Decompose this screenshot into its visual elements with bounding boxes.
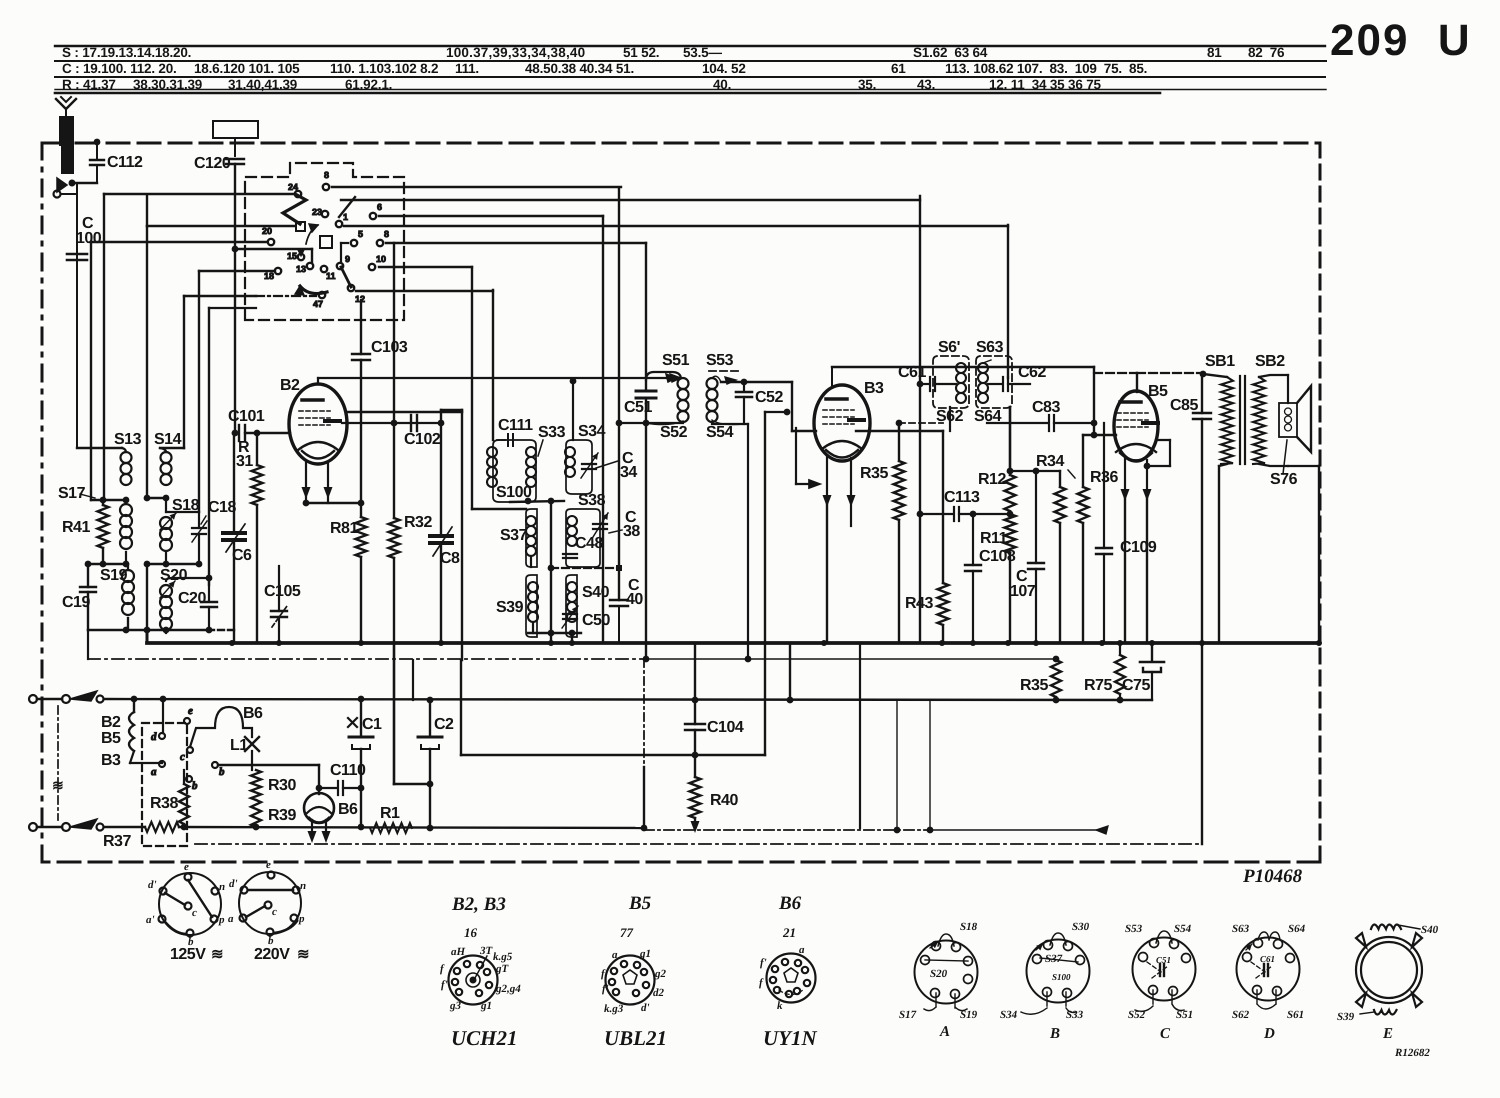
label R11	[980, 530, 1008, 547]
wire S14 top	[160, 296, 184, 448]
svg-text:35.: 35.	[858, 77, 876, 92]
svg-text:a: a	[228, 913, 234, 925]
IF transformer S53 coil	[707, 376, 745, 424]
svg-text:R41: R41	[62, 519, 90, 536]
resistor R81	[356, 503, 367, 643]
svg-text:C102: C102	[404, 431, 441, 448]
svg-text:UY1N: UY1N	[763, 1026, 817, 1050]
svg-text:SB2: SB2	[1255, 353, 1285, 370]
capacitor C100	[67, 254, 87, 260]
svg-text:S19: S19	[100, 567, 128, 584]
svg-text:220V: 220V	[254, 946, 290, 963]
resistor R37	[145, 822, 179, 832]
tube socket UY1N	[767, 954, 816, 1003]
svg-text:61.92.1.: 61.92.1.	[345, 77, 392, 92]
label B2	[280, 377, 300, 394]
coil S63	[978, 360, 991, 403]
capacitor C85	[1193, 374, 1211, 643]
svg-text:S33: S33	[1066, 1009, 1084, 1021]
svg-text:R35: R35	[860, 465, 888, 482]
label S100	[496, 484, 532, 501]
coil S18	[160, 513, 176, 564]
svg-text:S20: S20	[930, 968, 948, 980]
svg-text:S19: S19	[960, 1009, 978, 1021]
coil S17 winding	[120, 500, 132, 564]
svg-text:110. 1.103.102 8.2: 110. 1.103.102 8.2	[330, 61, 438, 76]
capacitor C113	[920, 507, 1010, 521]
node coil bottoms	[85, 561, 130, 568]
wire S64 down	[1007, 407, 1014, 474]
label R40	[710, 792, 738, 809]
label B6 heading	[778, 893, 802, 940]
capacitor C52	[712, 382, 752, 424]
svg-text:209 U: 209 U	[1330, 16, 1472, 65]
svg-text:d: d	[151, 731, 157, 743]
svg-text:c: c	[272, 906, 277, 918]
svg-text:≋: ≋	[297, 946, 309, 963]
labels UBL21 socket	[601, 948, 667, 1015]
label B6 lamp	[243, 705, 263, 722]
trimmer C34	[581, 453, 598, 478]
capacitor C112	[90, 139, 104, 183]
wire B5 screen box	[1147, 440, 1170, 466]
resistor R40	[690, 755, 701, 833]
svg-text:C61: C61	[898, 364, 926, 381]
svg-text:C83: C83	[1032, 399, 1060, 416]
coil S33	[526, 447, 536, 487]
label C18	[201, 499, 236, 524]
svg-text:d': d'	[641, 1002, 650, 1014]
svg-text:S63: S63	[1232, 923, 1250, 935]
svg-text:B5: B5	[628, 893, 652, 914]
svg-text:S40: S40	[582, 584, 610, 601]
wire to S100 top	[492, 290, 494, 440]
svg-text:k: k	[777, 1000, 783, 1012]
trimmer C18	[192, 512, 207, 564]
label S52	[660, 424, 688, 441]
svg-text:8: 8	[324, 170, 329, 180]
label S81	[1205, 353, 1235, 370]
resistor R11	[1005, 514, 1016, 643]
tube socket UCH21	[449, 956, 498, 1005]
svg-text:S6': S6'	[938, 339, 960, 356]
capacitor C101	[232, 425, 290, 441]
label R81	[330, 520, 358, 537]
title 209 U	[1330, 16, 1472, 65]
node S100 bottom	[510, 498, 564, 505]
svg-text:C62: C62	[1018, 364, 1046, 381]
svg-text:C85: C85	[1170, 397, 1198, 414]
coil S34	[565, 447, 575, 477]
label C104	[707, 719, 744, 736]
capacitor C107	[1028, 468, 1044, 643]
label S38	[578, 492, 606, 509]
capacitor C110	[316, 781, 365, 795]
wire screen feed	[394, 643, 430, 784]
label S18	[172, 497, 200, 514]
antenna terminal	[54, 191, 78, 198]
band switch contacts	[262, 170, 389, 309]
bottom dashdot rail	[644, 826, 1108, 834]
svg-text:77: 77	[620, 925, 634, 940]
capacitor C51	[636, 243, 656, 662]
svg-text:S52: S52	[660, 424, 688, 441]
svg-text:B2: B2	[101, 714, 121, 731]
svg-text:S38: S38	[578, 492, 606, 509]
svg-text:f': f'	[602, 983, 609, 995]
label C40	[626, 577, 643, 608]
parts table row S	[62, 45, 1285, 60]
svg-text:111.: 111.	[455, 61, 479, 76]
wire S53 top to B3 grid	[709, 371, 816, 662]
svg-text:C: C	[1160, 1026, 1171, 1042]
svg-text:S53: S53	[706, 352, 734, 369]
capacitor C83	[987, 415, 1097, 431]
trimmer C38	[593, 513, 608, 537]
svg-text:E: E	[1382, 1026, 1393, 1042]
lamp circuit B6	[190, 707, 252, 747]
svg-text:g2,g4: g2,g4	[495, 983, 521, 995]
node S39 bottom	[528, 630, 581, 643]
schematic dashed border	[42, 143, 1320, 862]
label R35b	[1020, 677, 1048, 694]
label C51	[624, 399, 652, 416]
svg-text:UCH21: UCH21	[451, 1026, 518, 1050]
svg-text:B3: B3	[864, 380, 884, 397]
heater chain	[129, 699, 162, 763]
ground bus	[147, 630, 1322, 646]
capacitor C105	[271, 566, 287, 643]
svg-text:6: 6	[377, 202, 382, 212]
svg-text:82 76: 82 76	[1248, 45, 1285, 60]
wire x930	[927, 700, 934, 833]
wire B2 screen pin	[303, 464, 365, 506]
wire switch 1 right	[344, 225, 1008, 227]
svg-text:C101: C101	[228, 408, 265, 425]
svg-text:S37: S37	[500, 527, 528, 544]
label R31	[236, 439, 253, 470]
label C103	[371, 339, 408, 356]
capacitor C111	[497, 434, 513, 446]
svg-text:g3: g3	[449, 1000, 462, 1012]
svg-text:24: 24	[288, 182, 298, 192]
svg-text:C105: C105	[264, 583, 301, 600]
svg-text:38.30.31.39: 38.30.31.39	[133, 77, 202, 92]
capacitor C62	[988, 225, 1030, 391]
svg-text:R75: R75	[1084, 677, 1112, 694]
svg-text:c: c	[192, 907, 197, 919]
IF can S34 outline	[566, 440, 592, 494]
label S64	[974, 408, 1002, 425]
svg-text:R32: R32	[404, 514, 432, 531]
parts table rule top	[55, 45, 1325, 47]
band switch arrow	[306, 224, 318, 244]
svg-text:C51: C51	[624, 399, 652, 416]
label C105	[264, 583, 301, 600]
capacitor C19	[80, 564, 96, 630]
svg-text:d2: d2	[653, 987, 665, 999]
svg-text:R37: R37	[103, 833, 131, 850]
label C48	[575, 535, 603, 552]
svg-text:f': f'	[760, 957, 767, 969]
label S54	[706, 424, 734, 441]
svg-text:47: 47	[313, 299, 323, 309]
coil S61	[950, 363, 966, 431]
label R37	[103, 833, 131, 850]
svg-text:R35: R35	[1020, 677, 1048, 694]
wire S13 top	[77, 447, 122, 449]
svg-text:107: 107	[1010, 583, 1036, 600]
label S39	[496, 599, 524, 616]
label S14	[154, 431, 182, 448]
svg-text:R : 41.37: R : 41.37	[62, 77, 116, 92]
svg-text:C51: C51	[1156, 955, 1171, 965]
label C62	[1018, 364, 1046, 381]
wire B3 pin2	[847, 458, 856, 526]
selector contacts	[151, 705, 225, 792]
label C100	[76, 215, 102, 247]
svg-text:18: 18	[264, 271, 274, 281]
svg-text:f: f	[759, 977, 764, 989]
label B5 heading	[620, 893, 652, 940]
node S18 bottom	[144, 561, 203, 630]
svg-text:R11: R11	[980, 530, 1008, 547]
label S33	[538, 424, 566, 456]
svg-text:a: a	[151, 766, 157, 778]
capacitor C2	[418, 700, 442, 828]
parts table rule 2	[55, 60, 1326, 62]
svg-text:g1: g1	[639, 948, 651, 960]
capacitor C40	[610, 188, 628, 643]
band switch wiper 2	[295, 286, 327, 295]
svg-text:b: b	[192, 780, 198, 792]
trimmer C50	[562, 606, 578, 628]
svg-text:C52: C52	[755, 389, 783, 406]
svg-text:40: 40	[626, 591, 643, 608]
svg-text:S1.62 63 64: S1.62 63 64	[913, 45, 988, 60]
svg-text:53.5—: 53.5—	[683, 45, 722, 60]
mains terminal top	[29, 695, 70, 703]
svg-text:16: 16	[464, 925, 478, 940]
svg-text:n: n	[219, 881, 225, 893]
wire switch 20 left	[91, 242, 267, 500]
coil can A	[915, 934, 978, 1011]
svg-text:C111: C111	[498, 417, 533, 434]
svg-text:B5: B5	[1148, 383, 1168, 400]
wire x644 drop	[643, 659, 645, 828]
wire speaker return	[1288, 466, 1319, 643]
resistor R43	[938, 431, 949, 643]
wire S18 top	[166, 498, 199, 512]
wire switch 18 left	[199, 271, 275, 512]
svg-text:S64: S64	[1288, 923, 1306, 935]
svg-text:S54: S54	[1174, 923, 1192, 935]
node IF2 mid dashdot	[548, 565, 622, 572]
svg-text:aH: aH	[451, 946, 466, 958]
label S37	[500, 527, 528, 544]
band switch center	[320, 236, 332, 248]
svg-text:13: 13	[296, 264, 306, 274]
svg-text:R30: R30	[268, 777, 296, 794]
label C38	[609, 509, 640, 540]
svg-text:a': a'	[146, 914, 155, 926]
label S63	[976, 339, 1004, 356]
svg-text:C75: C75	[1122, 677, 1150, 694]
label R1	[380, 805, 400, 822]
label S62	[936, 408, 964, 425]
label C110	[330, 762, 366, 779]
wire b-plus loop	[461, 409, 790, 759]
svg-text:S61: S61	[1287, 1009, 1304, 1021]
svg-text:≋: ≋	[211, 946, 223, 963]
svg-text:C108: C108	[979, 548, 1016, 565]
mains terminal bottom	[29, 823, 70, 831]
svg-text:113. 108.62 107. 83. 109 75: 113. 108.62 107. 83. 109 75. 85.	[945, 61, 1147, 76]
IF transformer S51 coil	[646, 372, 689, 425]
IF can S37 outline	[526, 509, 537, 567]
svg-text:S54: S54	[706, 424, 734, 441]
parts table row R	[62, 77, 1101, 92]
mains AC mark	[52, 777, 63, 793]
svg-text:S62: S62	[1232, 1009, 1250, 1021]
svg-text:SB1: SB1	[1205, 353, 1235, 370]
resistor R75	[1115, 643, 1125, 703]
label C1	[348, 716, 382, 733]
label C112	[107, 154, 143, 171]
band switch wiper 3	[339, 197, 355, 287]
label S82	[1255, 353, 1285, 370]
wire S34 top	[570, 378, 577, 440]
svg-text:81: 81	[1207, 45, 1222, 60]
label R34	[1036, 453, 1075, 478]
svg-text:34: 34	[620, 464, 637, 481]
parts table rule 3	[55, 76, 1325, 78]
resistor R36	[1078, 435, 1089, 643]
label C85	[1170, 397, 1198, 414]
svg-text:10: 10	[376, 254, 386, 264]
svg-text:S40: S40	[1421, 924, 1439, 936]
svg-text:B6: B6	[243, 705, 263, 722]
resistor R35b	[1051, 656, 1061, 704]
label S6'	[938, 339, 960, 356]
wire switch 6 right	[379, 215, 603, 217]
coil S13	[121, 448, 132, 485]
label R35a	[860, 465, 888, 482]
coil S20	[160, 578, 175, 633]
resistor R34	[1055, 471, 1066, 643]
label S19	[100, 567, 128, 584]
output transformer S81	[1203, 374, 1233, 643]
svg-text:n: n	[300, 880, 306, 892]
resistor R1	[370, 823, 412, 833]
svg-text:11: 11	[326, 271, 336, 281]
label C107	[1010, 568, 1036, 600]
svg-text:C1: C1	[362, 716, 382, 733]
capacitor C75	[1140, 643, 1164, 700]
resistor R35a	[894, 420, 905, 643]
svg-text:S34: S34	[578, 423, 606, 440]
speaker S76	[1279, 386, 1311, 452]
svg-text:S34: S34	[1000, 1009, 1018, 1021]
capacitor C61	[920, 377, 956, 391]
coil can E	[1356, 925, 1422, 1015]
svg-text:R39: R39	[268, 807, 296, 824]
node S18 junction	[144, 227, 170, 501]
resistor R38	[179, 765, 215, 827]
wire B5 cathode	[1121, 458, 1130, 643]
svg-text:k.g5: k.g5	[493, 951, 513, 963]
capacitor C1	[349, 699, 373, 827]
svg-text:S51: S51	[1176, 1009, 1193, 1021]
svg-text:51 52.: 51 52.	[623, 45, 659, 60]
coil S14	[160, 448, 172, 485]
label S17	[58, 485, 95, 502]
wire B2 cathode	[302, 462, 311, 503]
svg-text:S62: S62	[936, 408, 964, 425]
low rail	[412, 660, 414, 700]
svg-text:61: 61	[891, 61, 906, 76]
output transformer S82	[1253, 375, 1288, 466]
label C6	[232, 547, 252, 564]
label R43	[905, 595, 933, 612]
svg-text:S33: S33	[538, 424, 566, 441]
wire switch 16 left	[184, 295, 316, 297]
IF can S38 outline	[566, 509, 600, 567]
wire B5 topcap	[1094, 371, 1206, 392]
svg-text:D: D	[1263, 1026, 1275, 1042]
wire B2 grid2 line	[342, 420, 444, 427]
labels coil C	[1125, 923, 1193, 1042]
svg-text:C19: C19	[62, 594, 90, 611]
label C19	[62, 594, 90, 611]
svg-text:B3: B3	[101, 752, 121, 769]
svg-text:43.: 43.	[917, 77, 935, 92]
label S76	[1270, 440, 1298, 488]
resistor R41	[98, 500, 109, 564]
label C34	[596, 450, 637, 481]
svg-text:100: 100	[76, 230, 102, 247]
labels coil A	[899, 921, 978, 1040]
osc coil S63 can	[976, 356, 1012, 408]
svg-text:d': d'	[148, 879, 157, 891]
svg-text:B6: B6	[338, 801, 358, 818]
label S51	[662, 352, 690, 369]
svg-text:48.50.38 40.34 51.: 48.50.38 40.34 51.	[525, 61, 634, 76]
svg-text:23: 23	[312, 207, 322, 217]
svg-text:S18: S18	[172, 497, 200, 514]
output transformer core	[1240, 376, 1245, 464]
node S17 junction	[91, 497, 129, 504]
wire B6 pins	[308, 820, 331, 843]
svg-text:21: 21	[782, 925, 796, 940]
wire S52 return	[616, 420, 683, 427]
wire C8 top corner	[441, 409, 462, 411]
svg-text:C8: C8	[440, 550, 460, 567]
svg-text:S37: S37	[1045, 953, 1063, 965]
label S53	[706, 352, 734, 369]
svg-text:C2: C2	[434, 716, 454, 733]
svg-text:1: 1	[343, 212, 348, 222]
label C2	[434, 716, 454, 733]
wire R34 top	[1010, 470, 1060, 472]
wire coil bottom rail	[88, 627, 236, 634]
svg-text:8: 8	[384, 229, 389, 239]
band switch dashed box	[245, 163, 404, 320]
label C101	[228, 408, 265, 425]
wire switch 8b right	[341, 200, 920, 243]
wire C85 gnd drop	[1201, 643, 1203, 844]
svg-text:38: 38	[623, 523, 640, 540]
